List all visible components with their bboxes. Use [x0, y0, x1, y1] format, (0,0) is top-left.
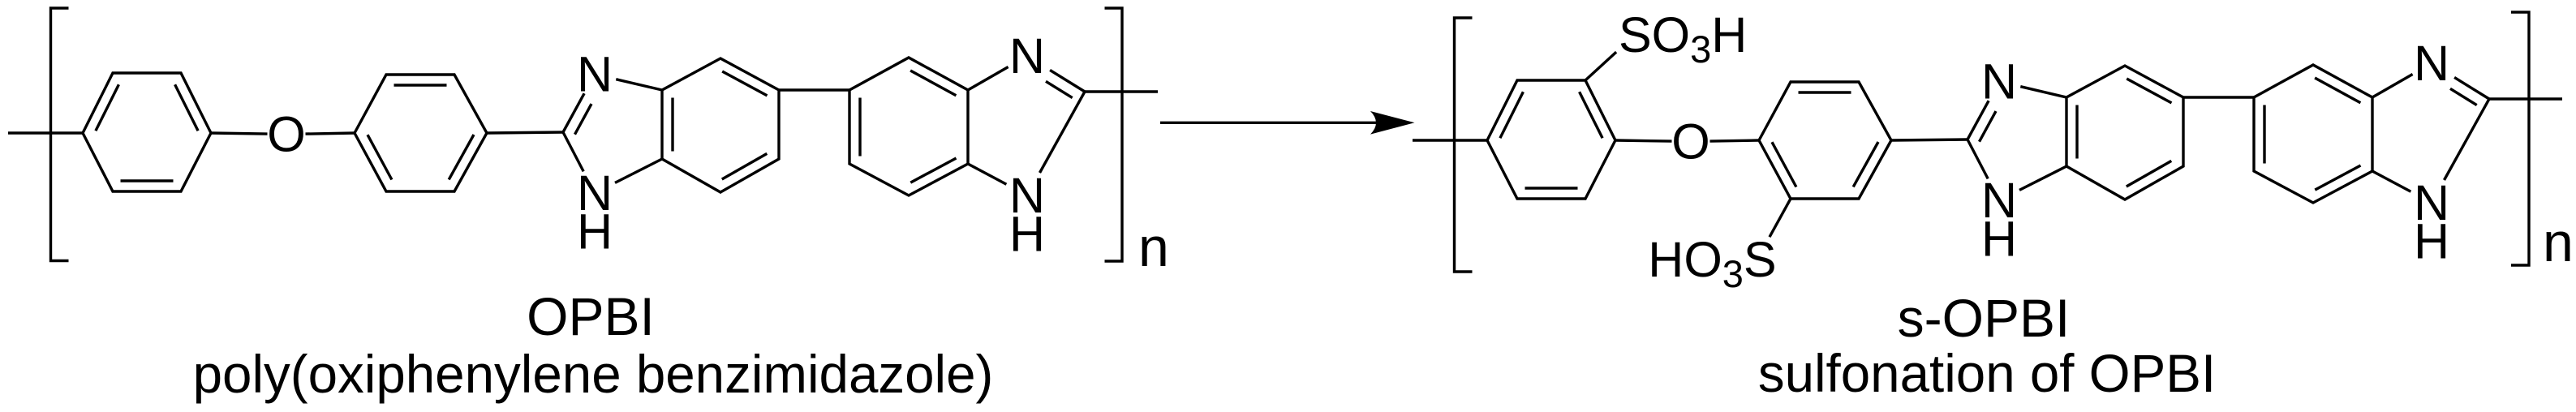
- svg-text:N: N: [1009, 28, 1045, 84]
- svg-text:HO: HO: [1648, 232, 1722, 287]
- svg-text:s-OPBI: s-OPBI: [1898, 288, 2071, 348]
- svg-text:H: H: [1009, 207, 1045, 262]
- svg-text:poly(oxiphenylene benzimidazol: poly(oxiphenylene benzimidazole): [193, 345, 994, 404]
- svg-text:O: O: [267, 107, 305, 162]
- svg-text:N: N: [577, 47, 613, 102]
- svg-text:S: S: [1744, 232, 1777, 287]
- svg-text:H: H: [1981, 212, 2017, 267]
- svg-text:O: O: [1671, 114, 1709, 170]
- svg-text:sulfonation of OPBI: sulfonation of OPBI: [1758, 344, 2216, 403]
- svg-text:3: 3: [1722, 252, 1744, 295]
- svg-text:H: H: [577, 204, 613, 260]
- svg-text:H: H: [1711, 7, 1747, 62]
- svg-text:OPBI: OPBI: [527, 286, 655, 346]
- svg-text:N: N: [1981, 54, 2017, 109]
- svg-text:H: H: [2414, 214, 2449, 269]
- svg-text:n: n: [2543, 212, 2574, 273]
- svg-text:3: 3: [1690, 28, 1711, 71]
- svg-text:SO: SO: [1619, 7, 1690, 62]
- svg-text:n: n: [1138, 217, 1169, 278]
- svg-text:N: N: [2414, 36, 2449, 91]
